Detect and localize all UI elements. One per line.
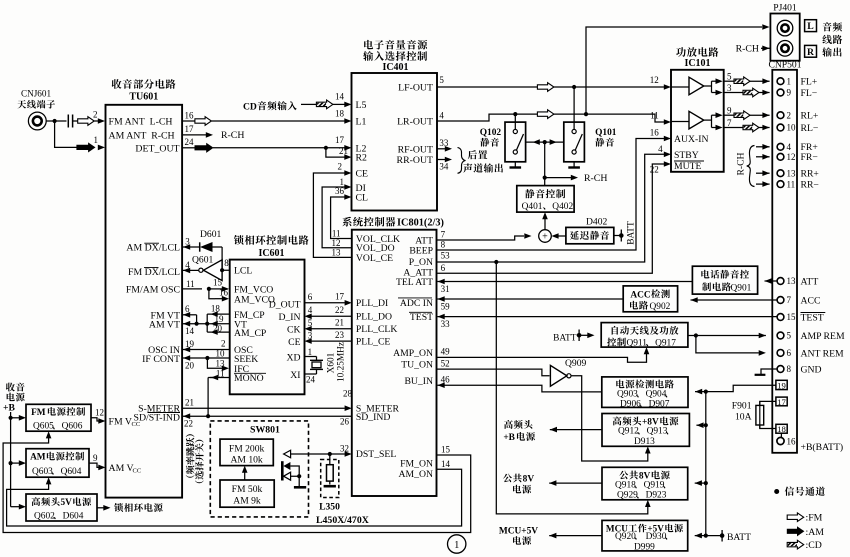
svg-text:LR-OUT: LR-OUT bbox=[397, 117, 433, 128]
wire OSC to OSC IN bbox=[182, 349, 230, 351]
ground symbol at pin8 bbox=[761, 369, 777, 374]
svg-text:D913: D913 bbox=[634, 437, 655, 447]
wire AM_ON loop to AM supply control bbox=[7, 469, 462, 526]
svg-text:3: 3 bbox=[727, 83, 732, 93]
ground under Q101 bbox=[573, 162, 575, 167]
svg-text:31: 31 bbox=[441, 284, 450, 294]
svg-text:3: 3 bbox=[308, 330, 313, 340]
svg-text:D907: D907 bbox=[649, 399, 670, 409]
svg-text:13: 13 bbox=[787, 276, 797, 286]
svg-text:F901: F901 bbox=[732, 401, 752, 412]
svg-text:ATT: ATT bbox=[801, 276, 819, 287]
wire Q911 to AMP REM ANT REM bbox=[688, 335, 696, 337]
svg-text:CE: CE bbox=[288, 337, 300, 348]
svg-text:L5: L5 bbox=[356, 100, 367, 111]
svg-text:IF CONT: IF CONT bbox=[142, 354, 180, 365]
wire CL from IC801 VOL_CLK bbox=[331, 197, 352, 239]
svg-text:12: 12 bbox=[650, 75, 659, 85]
svg-text:21: 21 bbox=[339, 146, 348, 156]
svg-text:Q913: Q913 bbox=[647, 427, 668, 437]
CNP501 pin 7 ACC bbox=[777, 297, 784, 304]
wire AM antenna bbox=[55, 121, 77, 147]
svg-text:BATT: BATT bbox=[627, 221, 637, 245]
svg-text:FM/AM OSC: FM/AM OSC bbox=[126, 284, 180, 295]
svg-text:14: 14 bbox=[441, 459, 451, 469]
svg-text:32: 32 bbox=[340, 443, 349, 453]
svg-text:AMP_ON: AMP_ON bbox=[393, 348, 433, 359]
svg-text:BU_IN: BU_IN bbox=[404, 376, 433, 387]
svg-text:8: 8 bbox=[224, 258, 229, 268]
crystal X601 bbox=[305, 356, 317, 358]
wire BEEP to IC101 AUX-IN bbox=[437, 139, 665, 251]
svg-text:R-CH: R-CH bbox=[221, 130, 244, 141]
svg-text:8: 8 bbox=[441, 239, 446, 249]
wire FM Vcc bbox=[91, 418, 99, 421]
wire branch to R2 bbox=[326, 148, 345, 157]
CNP501 pin 6 ANT REM bbox=[777, 350, 784, 357]
CNP501 pin 11 RR- bbox=[777, 181, 784, 188]
svg-text:AUX-IN: AUX-IN bbox=[674, 134, 708, 145]
svg-text:SW801: SW801 bbox=[250, 425, 280, 436]
svg-text:21: 21 bbox=[185, 398, 194, 408]
wire bus to MCU regulator and BATT bbox=[695, 535, 706, 537]
svg-text:4: 4 bbox=[658, 144, 663, 154]
svg-text:34: 34 bbox=[439, 162, 449, 172]
svg-text:Q102: Q102 bbox=[480, 128, 502, 138]
CNP501 pin 16 +B bbox=[780, 433, 782, 437]
CNP501 pin 13 RR+ bbox=[777, 170, 784, 177]
svg-text:IC601: IC601 bbox=[258, 248, 284, 259]
tuner 5V supply block Q602 D604 bbox=[26, 494, 97, 521]
svg-text:VOL_CE: VOL_CE bbox=[356, 253, 393, 264]
svg-text:ACC: ACC bbox=[801, 295, 821, 306]
svg-text:FM 200k: FM 200k bbox=[229, 444, 265, 455]
svg-text:TEST: TEST bbox=[410, 312, 433, 323]
svg-text:D402: D402 bbox=[586, 217, 608, 228]
switch Q102 mute bbox=[505, 122, 526, 162]
svg-text:28: 28 bbox=[343, 389, 353, 399]
wire IC101 out pin5 to CNP501 FL+ bbox=[724, 80, 734, 82]
svg-text:15: 15 bbox=[787, 312, 797, 322]
wire IC101 out pin9 to RL+ bbox=[724, 114, 734, 116]
svg-text:17: 17 bbox=[335, 291, 345, 301]
wire DET_OUT to IC401 L2 (AM) bbox=[182, 147, 195, 149]
ground under Q102 bbox=[514, 162, 516, 167]
wire AMP_ON to Q911 bbox=[437, 353, 647, 363]
svg-text:+B: +B bbox=[503, 433, 515, 443]
svg-text:4: 4 bbox=[439, 111, 444, 121]
svg-text:12: 12 bbox=[787, 152, 796, 162]
node antenna bbox=[46, 120, 66, 122]
svg-text:PLL_DI: PLL_DI bbox=[356, 298, 388, 309]
svg-text:Q101: Q101 bbox=[595, 128, 617, 138]
wire 8V tuner reg to label bbox=[550, 429, 602, 431]
step box FM200k AM10k bbox=[220, 439, 273, 466]
svg-text:9: 9 bbox=[93, 453, 98, 463]
svg-text:FL−: FL− bbox=[801, 88, 818, 99]
svg-text:11: 11 bbox=[650, 110, 659, 120]
svg-text:19: 19 bbox=[777, 380, 786, 390]
amp triangle 2 bbox=[689, 111, 704, 129]
svg-text:15: 15 bbox=[441, 445, 451, 455]
svg-text:CC: CC bbox=[133, 468, 142, 475]
svg-text:L350: L350 bbox=[319, 502, 340, 513]
svg-text:18: 18 bbox=[777, 424, 786, 434]
svg-text:Q919: Q919 bbox=[644, 481, 665, 491]
svg-text:AM_ON: AM_ON bbox=[399, 469, 433, 480]
svg-text:AM ANT R-CH: AM ANT R-CH bbox=[109, 130, 175, 141]
wire summing to mute control bbox=[544, 219, 546, 230]
CNP501 pin 12 FR- bbox=[777, 153, 784, 160]
svg-text:L1: L1 bbox=[356, 117, 367, 128]
FM supply control block Q605 Q606 bbox=[26, 404, 91, 431]
wire rear outputs RF RR bbox=[437, 148, 445, 150]
wire SEEK IFC to IF CONT bbox=[182, 357, 230, 359]
svg-text:FM DX/LCL: FM DX/LCL bbox=[128, 267, 180, 278]
svg-text:9: 9 bbox=[787, 88, 792, 98]
svg-text:5: 5 bbox=[787, 331, 792, 341]
wire LR-OUT to PJ401 L bbox=[586, 27, 762, 114]
svg-text:+B(BATT): +B(BATT) bbox=[801, 442, 844, 453]
svg-text:+B: +B bbox=[3, 402, 15, 413]
svg-text:7: 7 bbox=[441, 230, 446, 240]
svg-text:SD_IND: SD_IND bbox=[356, 412, 390, 423]
svg-text:2: 2 bbox=[93, 110, 98, 120]
svg-text:R-CH: R-CH bbox=[584, 173, 607, 184]
svg-text:IC401: IC401 bbox=[382, 62, 408, 73]
svg-text:D604: D604 bbox=[63, 511, 84, 521]
common 8V regulator block Q918 Q919 Q929 D923 bbox=[602, 467, 688, 500]
mute control block Q401 Q402 bbox=[517, 186, 574, 213]
svg-text:20: 20 bbox=[213, 324, 223, 334]
svg-text:PLL_CE: PLL_CE bbox=[356, 337, 391, 348]
wire TEL ATT from Q901 bbox=[438, 281, 693, 283]
wire MONO to SD line bbox=[210, 377, 230, 379]
svg-text:13: 13 bbox=[332, 248, 342, 258]
wire between mutes to mute control bbox=[526, 141, 564, 143]
summing node bbox=[539, 230, 552, 243]
svg-text:CC: CC bbox=[132, 421, 141, 428]
svg-text:21: 21 bbox=[335, 317, 344, 327]
svg-text:23: 23 bbox=[335, 330, 345, 340]
svg-text:53: 53 bbox=[441, 251, 451, 261]
svg-text:6: 6 bbox=[787, 348, 792, 358]
svg-text:BEEP: BEEP bbox=[409, 245, 433, 256]
wire LF-OUT to IC101 pin12 (FM) bbox=[437, 86, 537, 88]
svg-text:33: 33 bbox=[439, 138, 449, 148]
wire BU_IN from power detect bbox=[438, 385, 602, 392]
svg-text:16: 16 bbox=[787, 437, 797, 447]
svg-text:2: 2 bbox=[221, 339, 226, 349]
label audio line out bbox=[823, 22, 832, 31]
svg-text:AM 10k: AM 10k bbox=[230, 455, 262, 466]
IC101 internal wires bbox=[671, 86, 689, 88]
svg-text:49: 49 bbox=[441, 347, 451, 357]
wire P_ON to IC101 STBY bbox=[437, 154, 665, 262]
CNP501 pin 4 FR+ bbox=[777, 143, 784, 150]
svg-text:17: 17 bbox=[335, 135, 345, 145]
wire S-METER to IC801 bbox=[182, 407, 345, 409]
pll block IC601 bbox=[234, 235, 244, 245]
svg-text:BATT: BATT bbox=[727, 532, 751, 543]
wire TEST from CNP501 pin15 bbox=[438, 316, 778, 318]
svg-text:D601: D601 bbox=[200, 229, 222, 240]
svg-text:RR+: RR+ bbox=[801, 169, 819, 180]
svg-text:1: 1 bbox=[94, 135, 99, 145]
brace rear channel bbox=[458, 148, 466, 174]
svg-text:59: 59 bbox=[441, 301, 451, 311]
amp triangle 1 bbox=[689, 77, 704, 95]
svg-text:D930: D930 bbox=[646, 532, 667, 542]
svg-text:ADC IN: ADC IN bbox=[400, 298, 433, 309]
battery feed BATT for D402 bbox=[614, 235, 622, 237]
wire CE from IC801 VOL_CE bbox=[313, 173, 351, 257]
radio block TU601 bbox=[106, 105, 183, 498]
wire IC101 out pin7 to RL- bbox=[724, 127, 743, 129]
wire PLL_DO to D_IN bbox=[312, 315, 352, 317]
CNP501 pin 13 ATT bbox=[777, 278, 784, 285]
svg-text:AM DX/LCL: AM DX/LCL bbox=[126, 243, 180, 254]
svg-text:ACC: ACC bbox=[630, 290, 651, 300]
legend FM arrow bbox=[787, 513, 804, 522]
svg-text:R-CH: R-CH bbox=[736, 44, 759, 55]
svg-text:RF-OUT: RF-OUT bbox=[398, 144, 433, 155]
svg-text:12: 12 bbox=[95, 408, 104, 418]
svg-text:IC801(2/3): IC801(2/3) bbox=[397, 218, 444, 229]
svg-text:PJ401: PJ401 bbox=[773, 3, 797, 14]
svg-text:26: 26 bbox=[340, 417, 350, 427]
svg-text:FR−: FR− bbox=[801, 152, 818, 163]
svg-text:Q402: Q402 bbox=[552, 202, 573, 212]
wire R-CH tap bbox=[545, 177, 571, 179]
CNP501 pin 15 TEST bbox=[777, 314, 784, 321]
svg-text:DET_OUT: DET_OUT bbox=[135, 144, 179, 155]
label L boxed bbox=[805, 20, 817, 32]
svg-text:XD: XD bbox=[287, 352, 301, 363]
svg-text:16: 16 bbox=[650, 128, 660, 138]
legend AM arrow bbox=[787, 527, 804, 536]
svg-text:ANT REM: ANT REM bbox=[801, 348, 845, 359]
auto antenna amp control block Q911 Q917 bbox=[601, 323, 688, 348]
svg-text:D_IN: D_IN bbox=[278, 312, 300, 323]
wire common 8V to label bbox=[549, 482, 602, 484]
svg-text:XI: XI bbox=[290, 370, 300, 381]
svg-text:+: + bbox=[542, 232, 548, 243]
svg-text:14: 14 bbox=[335, 91, 345, 101]
svg-text:7: 7 bbox=[787, 295, 792, 305]
AM supply control block Q603 Q604 bbox=[26, 449, 89, 478]
svg-text:CK: CK bbox=[287, 325, 300, 336]
svg-text:L450X/470X: L450X/470X bbox=[316, 515, 369, 526]
CNP501 pin 10 RL- bbox=[777, 124, 784, 131]
svg-text:17: 17 bbox=[777, 397, 786, 407]
wire TU_ON to Q909 input bbox=[437, 369, 550, 376]
svg-text:SD/ST-IND: SD/ST-IND bbox=[134, 412, 180, 423]
wire selector to DST_SEL bbox=[291, 453, 345, 455]
svg-text:Q401: Q401 bbox=[522, 202, 543, 212]
svg-text:RL+: RL+ bbox=[801, 111, 819, 122]
svg-text:Q603: Q603 bbox=[32, 467, 53, 477]
svg-text:D923: D923 bbox=[646, 491, 667, 501]
wire Q902 from CNP501 ACC bbox=[691, 299, 778, 301]
svg-text:CL: CL bbox=[356, 192, 369, 203]
svg-text:Q604: Q604 bbox=[61, 467, 82, 477]
svg-text:GND: GND bbox=[801, 364, 822, 375]
selector contacts bbox=[281, 461, 284, 480]
svg-text:RL−: RL− bbox=[801, 123, 819, 134]
svg-text:2: 2 bbox=[787, 110, 792, 120]
svg-text:AM VT: AM VT bbox=[149, 319, 180, 330]
svg-text:33: 33 bbox=[441, 319, 451, 329]
phone mute block Q901 bbox=[692, 266, 757, 294]
svg-text:13: 13 bbox=[216, 359, 226, 369]
CNP501 pin 8 GND bbox=[777, 366, 784, 373]
svg-text:Q909: Q909 bbox=[565, 358, 587, 369]
CNP501 boxed pin 19 bbox=[776, 380, 787, 389]
svg-text:Q904: Q904 bbox=[646, 390, 667, 400]
svg-text:STBY: STBY bbox=[674, 150, 699, 161]
wire FM/AM OSC to VCO pins bbox=[182, 288, 202, 290]
svg-text:10: 10 bbox=[216, 349, 226, 359]
svg-text:LF-OUT: LF-OUT bbox=[398, 83, 433, 94]
svg-text:4: 4 bbox=[185, 260, 190, 270]
svg-text:P_ON: P_ON bbox=[409, 257, 433, 268]
wire LR-OUT to IC101 pin11 bbox=[437, 114, 664, 122]
svg-text::AM: :AM bbox=[806, 527, 825, 538]
svg-text:Q917: Q917 bbox=[655, 339, 676, 349]
svg-text::CD: :CD bbox=[806, 540, 822, 551]
svg-text:22: 22 bbox=[184, 418, 193, 428]
svg-text:Q901: Q901 bbox=[731, 283, 752, 293]
wire VT bus FM_CP AM_CP bbox=[182, 314, 197, 316]
label common 8V supply bbox=[503, 474, 512, 483]
wire delay mute to summing bbox=[558, 235, 566, 237]
wire ADC IN from Q902 bbox=[438, 298, 624, 300]
svg-text:TEST: TEST bbox=[801, 312, 824, 323]
svg-text:FL+: FL+ bbox=[801, 77, 818, 88]
wire contacts to ground bbox=[290, 466, 299, 476]
svg-text:12: 12 bbox=[332, 238, 341, 248]
svg-text:R: R bbox=[807, 47, 815, 58]
svg-text:AMP REM: AMP REM bbox=[801, 331, 845, 342]
switch block SW801 dashed bbox=[210, 421, 308, 517]
svg-text:16: 16 bbox=[219, 288, 229, 298]
switch Q101 mute bbox=[564, 122, 585, 162]
svg-text:8V: 8V bbox=[523, 474, 535, 484]
wire FM_ON loop to FM supply control bbox=[3, 437, 471, 533]
wire Q901 from CNP501 ATT bbox=[765, 280, 778, 282]
wire L-CH to IC401 L1 (FM) bbox=[182, 120, 195, 122]
label tuner +B supply bbox=[504, 420, 513, 429]
CNP501 pin 5 AMP REM bbox=[777, 332, 784, 339]
svg-text:PLL_CLK: PLL_CLK bbox=[356, 324, 397, 335]
svg-text:Q602: Q602 bbox=[34, 511, 55, 521]
capacitor coupling bbox=[67, 115, 69, 128]
svg-text:4: 4 bbox=[787, 142, 792, 152]
svg-text:CE: CE bbox=[356, 169, 369, 180]
svg-text:15: 15 bbox=[213, 277, 223, 287]
svg-text:Q606: Q606 bbox=[62, 422, 83, 432]
CNP501 boxed pin 18 bbox=[776, 424, 787, 433]
wire bus to 8V common regulator bbox=[695, 482, 706, 484]
svg-text:RR-OUT: RR-OUT bbox=[397, 155, 433, 166]
svg-text:13: 13 bbox=[787, 168, 797, 178]
svg-text:6: 6 bbox=[441, 263, 446, 273]
svg-text:R2: R2 bbox=[356, 153, 368, 164]
CNP501 pin 9 FL- bbox=[777, 89, 784, 96]
svg-text:5: 5 bbox=[439, 75, 444, 85]
wire +B bus bbox=[10, 412, 12, 507]
svg-text:2: 2 bbox=[338, 161, 343, 171]
svg-text:D906: D906 bbox=[620, 399, 641, 409]
svg-text:AM: AM bbox=[30, 453, 46, 463]
svg-text:LCL: LCL bbox=[234, 266, 252, 277]
svg-text:11: 11 bbox=[186, 279, 195, 289]
svg-text:3: 3 bbox=[185, 237, 190, 247]
svg-text:7: 7 bbox=[727, 118, 732, 128]
svg-text:TU_ON: TU_ON bbox=[401, 360, 433, 371]
svg-text:4: 4 bbox=[308, 305, 313, 315]
inductor L350 bbox=[321, 460, 339, 498]
CNP501 pin 1 FL+ bbox=[777, 78, 784, 85]
svg-text::FM: :FM bbox=[806, 513, 823, 524]
op-amp IC401 electronic volume block bbox=[352, 73, 438, 211]
wire MCU reg to label bbox=[549, 535, 602, 537]
wire battery bus right side bbox=[705, 392, 707, 536]
power amp IC101 bbox=[676, 47, 686, 57]
svg-text:PLL_DO: PLL_DO bbox=[356, 312, 392, 323]
svg-text:18: 18 bbox=[211, 304, 221, 314]
svg-text:1: 1 bbox=[454, 540, 459, 551]
svg-text:Q918: Q918 bbox=[615, 481, 636, 491]
wire D601 to LCL bbox=[222, 247, 230, 270]
svg-text:52: 52 bbox=[441, 358, 450, 368]
svg-text:AM_CP: AM_CP bbox=[234, 328, 266, 339]
svg-text:TEL ATT: TEL ATT bbox=[396, 277, 433, 288]
svg-text:MONO: MONO bbox=[234, 373, 264, 384]
svg-text:17: 17 bbox=[185, 124, 195, 134]
svg-text:10A: 10A bbox=[735, 412, 752, 423]
svg-text:BATT: BATT bbox=[553, 334, 577, 344]
svg-text:AM V: AM V bbox=[109, 463, 134, 474]
wire Q909 output to 8V regulator bbox=[571, 376, 648, 461]
svg-text:20: 20 bbox=[185, 360, 195, 370]
label frequency step switch rotated bbox=[186, 434, 195, 477]
svg-text:8: 8 bbox=[787, 364, 792, 374]
wire PLL_CE to CE bbox=[312, 340, 352, 342]
svg-text:FM 50k: FM 50k bbox=[232, 484, 263, 495]
svg-text:FM V: FM V bbox=[109, 416, 133, 427]
wire pin19 to power detect bbox=[695, 385, 776, 391]
power detect block Q903 Q904 D906 D907 bbox=[602, 377, 688, 408]
svg-text:1: 1 bbox=[308, 347, 313, 357]
CNP501 pin 2 RL+ bbox=[777, 112, 784, 119]
svg-text:Q920: Q920 bbox=[615, 532, 636, 542]
wire PLL_CLK to CK bbox=[312, 328, 352, 330]
label R boxed bbox=[805, 45, 817, 57]
wire SD_IND to TU601 bbox=[183, 415, 352, 417]
svg-text:Q929: Q929 bbox=[617, 491, 638, 501]
svg-text:Q605: Q605 bbox=[33, 422, 54, 432]
label radio power +B bbox=[6, 383, 15, 392]
wire DI from IC801 VOL_DO bbox=[322, 187, 352, 248]
svg-text:R-CH: R-CH bbox=[736, 152, 747, 175]
svg-text:11: 11 bbox=[216, 368, 225, 378]
wire between step boxes bbox=[244, 471, 246, 480]
svg-text:CD: CD bbox=[243, 101, 257, 112]
svg-text:TU601: TU601 bbox=[129, 92, 158, 103]
svg-text:11: 11 bbox=[787, 179, 796, 189]
